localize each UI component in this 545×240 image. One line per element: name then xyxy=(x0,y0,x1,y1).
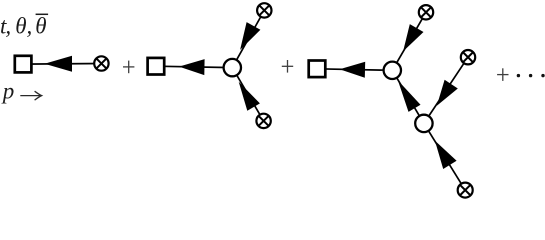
wire vertex3b to right crossed xyxy=(424,57,468,123)
wire square2 to vertex2 xyxy=(156,66,232,67)
arrow on wire d3 right xyxy=(437,80,458,106)
arrow on wire d3 horizontal xyxy=(340,62,366,78)
wire vertex3a to vertex3b xyxy=(392,70,424,123)
crossed circle noise d2 top xyxy=(257,3,271,17)
svg-text:,: , xyxy=(5,14,11,39)
arrow on wire d2 horizontal xyxy=(179,59,205,75)
plus sign 2 xyxy=(282,65,293,67)
svg-text:θ: θ xyxy=(15,14,26,39)
open circle vertex d2 xyxy=(224,59,241,76)
ellipsis dots xyxy=(517,74,520,77)
square external vertex d1 xyxy=(15,56,32,73)
svg-text:,: , xyxy=(27,14,33,39)
crossed circle noise d3 top xyxy=(419,5,433,19)
label t,theta,thetabar xyxy=(0,14,47,39)
open circle vertex d3 lower xyxy=(415,115,432,132)
plus sign 1 xyxy=(123,66,134,68)
wire vertex3b to bottom crossed xyxy=(424,123,465,190)
wire vertex2 to top crossed xyxy=(232,10,264,67)
open circle vertex d3 upper xyxy=(384,62,401,79)
plus sign 3 xyxy=(497,74,508,76)
arrow on wire d3 bottom xyxy=(435,141,457,169)
arrow on wire d2 top xyxy=(240,22,260,50)
crossed circle noise d3 right xyxy=(461,50,475,64)
crossed circle noise d2 bottom xyxy=(256,114,270,128)
crossed circle noise d1 xyxy=(94,56,108,70)
square external vertex d2 xyxy=(148,58,165,75)
svg-text:θ: θ xyxy=(35,14,46,39)
label p-arrow xyxy=(1,78,42,103)
square external vertex d3 xyxy=(309,61,326,78)
arrow on wire d3 top xyxy=(403,24,423,51)
arrow on wire d2 bottom xyxy=(239,82,260,111)
wire vertex2 to bottom crossed xyxy=(232,68,263,121)
wire vertex3a to top crossed xyxy=(392,12,426,70)
arrow on wire d3 middle xyxy=(398,80,421,112)
wire square1 to crossed1 xyxy=(23,63,101,66)
svg-text:p: p xyxy=(1,78,15,103)
arrow on wire d1 xyxy=(45,56,73,72)
wire square3 to vertex3a xyxy=(317,69,392,71)
crossed circle noise d3 bottom xyxy=(458,183,473,198)
